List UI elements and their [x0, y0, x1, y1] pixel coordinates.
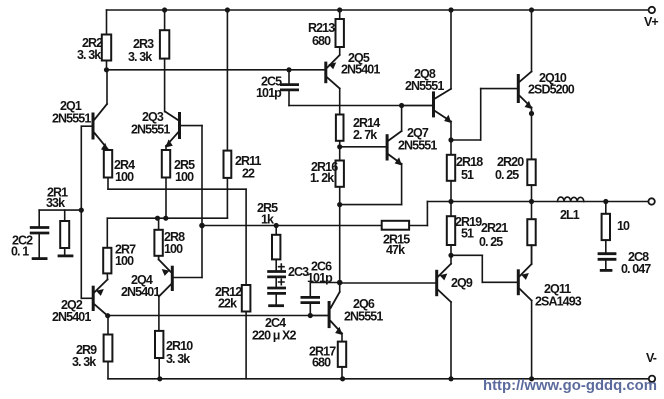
- svg-text:3. 3k: 3. 3k: [72, 355, 96, 369]
- wire 2Q6 collector to 2Q9 base: [340, 282, 436, 284]
- svg-text:V+: V+: [644, 15, 658, 29]
- svg-text:101p: 101p: [256, 86, 282, 100]
- resistor 2R5 (100): [162, 150, 170, 178]
- wire bottom V- rail: [108, 378, 651, 380]
- svg-text:V-: V-: [646, 351, 657, 365]
- resistor 2R21: [531, 202, 533, 220]
- wire 2Q7 emitter to 2R16 bottom node: [340, 204, 402, 206]
- svg-text:100: 100: [115, 254, 134, 268]
- transistor 2Q6: [328, 301, 331, 328]
- svg-text:47k: 47k: [386, 243, 405, 257]
- terminal output: [648, 198, 654, 204]
- svg-text:0. 047: 0. 047: [621, 262, 651, 276]
- svg-text:2N5401: 2N5401: [341, 63, 380, 77]
- svg-text:2N5401: 2N5401: [121, 285, 160, 299]
- svg-text:100: 100: [175, 170, 194, 184]
- svg-text:2Q9: 2Q9: [451, 276, 473, 290]
- svg-text:0. 25: 0. 25: [479, 235, 503, 249]
- resistor 2R3: [164, 10, 166, 30]
- svg-text:3. 3k: 3. 3k: [77, 48, 101, 62]
- node dot 2C5 top: [286, 67, 291, 72]
- resistor 2R2: [106, 10, 108, 35]
- svg-text:1k: 1k: [261, 213, 274, 227]
- svg-text:2N5551: 2N5551: [405, 79, 444, 93]
- svg-text:2N5551: 2N5551: [52, 112, 91, 126]
- resistor 2R8: [158, 218, 160, 230]
- node dot top rail at R213: [337, 7, 342, 12]
- resistor 2R11: [226, 10, 228, 151]
- resistor R213: [339, 10, 341, 19]
- node dot top rail at 2R3: [162, 7, 167, 12]
- resistor 2R5 (1k): [275, 226, 277, 235]
- transistor 2Q3: [178, 112, 181, 139]
- resistor 10: [605, 202, 607, 214]
- resistor 2R20: [527, 159, 535, 185]
- svg-text:2L1: 2L1: [560, 208, 580, 222]
- node dot 2Q9 emitter: [448, 253, 453, 258]
- resistor 2R19: [450, 202, 452, 217]
- svg-text:2N5551: 2N5551: [131, 123, 170, 137]
- wire 2C5 bottom to 2Q8 base: [289, 105, 432, 107]
- transistor 2Q9: [435, 270, 438, 296]
- capacitor 2C4: [267, 287, 286, 290]
- terminal V-: [649, 376, 655, 382]
- svg-text:100: 100: [164, 242, 183, 256]
- node dot top rail at 2R11: [225, 7, 230, 12]
- svg-text:680: 680: [312, 34, 331, 48]
- svg-text:R213: R213: [308, 21, 335, 35]
- transistor 2Q4: [171, 266, 174, 291]
- svg-text:33k: 33k: [46, 196, 65, 210]
- ground 2C8: [600, 269, 613, 272]
- svg-text:2R18: 2R18: [456, 155, 483, 169]
- capacitor 2C5: [288, 70, 290, 83]
- wire 2Q6 collector node: [310, 282, 339, 284]
- wire 2Q3/2Q4 base column: [201, 126, 203, 278]
- svg-text:2R3: 2R3: [133, 37, 154, 51]
- transistor 2Q11: [517, 269, 520, 295]
- transistor 2Q10: [517, 74, 520, 103]
- wire output rail: [427, 201, 648, 203]
- svg-text:1. 2k: 1. 2k: [310, 171, 334, 185]
- node dot top rail at 2Q8 collector: [448, 7, 453, 12]
- resistor 2R7: [106, 218, 108, 248]
- wire feedback rail left: [202, 225, 427, 227]
- ground 2R1: [58, 254, 74, 257]
- svg-text:100: 100: [115, 170, 134, 184]
- svg-text:680: 680: [312, 356, 331, 370]
- node dot 2Q8 emitter: [448, 137, 453, 142]
- resistor 2R14: [339, 106, 341, 115]
- ground 2C2: [32, 257, 48, 260]
- wire 2R4 bottom to 2R12 top: [108, 188, 246, 190]
- wire node A (2R2 bottom to 2Q5 base): [107, 69, 325, 71]
- wire mid bias node (2R7/2R8 tops to 2R11 bottom): [107, 217, 227, 219]
- wire top V+ rail: [107, 9, 651, 11]
- terminal V+: [649, 7, 655, 13]
- ground 2C4: [268, 304, 284, 307]
- resistor 2R12: [242, 285, 251, 312]
- svg-text:http://www.go-gddq.com: http://www.go-gddq.com: [483, 378, 657, 394]
- svg-text:2SD5200: 2SD5200: [528, 83, 575, 97]
- svg-text:2SA1493: 2SA1493: [535, 295, 582, 309]
- wire input node vertical: [80, 126, 82, 298]
- svg-text:51: 51: [461, 168, 474, 182]
- svg-text:2R10: 2R10: [166, 339, 193, 353]
- wire 2Q7 base: [340, 146, 386, 148]
- capacitor 2C6: [309, 283, 311, 297]
- wire 2Q8 emitter to 2Q10 base riser: [451, 139, 481, 141]
- node dot rail at 2Q11 collector: [529, 376, 534, 381]
- resistor 2R10: [155, 331, 163, 358]
- capacitor 2C2: [38, 210, 40, 226]
- svg-text:2N5401: 2N5401: [52, 310, 91, 324]
- transistor 2Q8: [432, 91, 435, 117]
- node dot rail at 2R10: [157, 376, 162, 381]
- node dot top rail at 2Q10 collector: [529, 7, 534, 12]
- node dot 2R14 bottom: [337, 144, 342, 149]
- svg-text:22: 22: [242, 167, 255, 181]
- node dot rail at 2R17: [340, 376, 345, 381]
- wire VAS column down to 2Q6 collector: [339, 205, 341, 283]
- inductor 2L1: [558, 197, 584, 201]
- svg-text:3. 3k: 3. 3k: [128, 50, 152, 64]
- wire 2Q2 collector node: [108, 315, 328, 317]
- resistor 2R15: [382, 221, 409, 230]
- svg-text:2R21: 2R21: [481, 221, 508, 235]
- node dot 2Q7 collector: [399, 103, 404, 108]
- node dot rail at 2Q9 collector: [448, 376, 453, 381]
- svg-text:2C3: 2C3: [288, 265, 309, 279]
- transistor 2Q2: [92, 286, 95, 311]
- capacitor 2C3: [267, 270, 286, 273]
- transistor 2Q7: [386, 134, 389, 160]
- svg-text:2R20: 2R20: [497, 155, 524, 169]
- resistor 2R4: [104, 150, 112, 178]
- svg-text:22k: 22k: [218, 297, 237, 311]
- transistor 2Q5: [324, 62, 327, 84]
- transistor 2Q1: [92, 113, 95, 140]
- resistor 2R9: [107, 316, 109, 335]
- svg-text:0. 1: 0. 1: [11, 245, 29, 259]
- svg-text:10: 10: [617, 219, 630, 233]
- svg-text:51: 51: [461, 227, 474, 241]
- capacitor 2C8: [598, 252, 617, 255]
- resistor 2R16: [339, 147, 341, 161]
- svg-text:0. 25: 0. 25: [495, 168, 519, 182]
- resistor 2R1: [64, 210, 66, 221]
- resistor 2R17: [338, 342, 346, 367]
- svg-text:2N5551: 2N5551: [398, 139, 437, 153]
- svg-text:2. 7k: 2. 7k: [353, 128, 377, 142]
- svg-text:2N5551: 2N5551: [344, 310, 383, 324]
- svg-text:220 μ X2: 220 μ X2: [252, 329, 296, 343]
- svg-text:3. 3k: 3. 3k: [166, 352, 190, 366]
- wire 2Q9/2Q11 base link: [451, 254, 482, 256]
- resistor 2R18: [450, 140, 452, 155]
